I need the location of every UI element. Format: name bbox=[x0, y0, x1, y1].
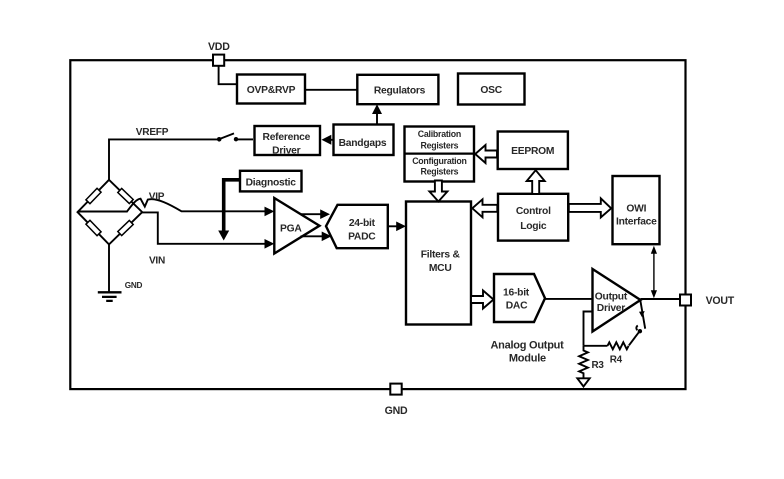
block Control Logic bbox=[498, 194, 568, 241]
double arrow OWI Interface to output line bbox=[651, 246, 657, 299]
label GND (bridge) bbox=[125, 281, 143, 290]
label VDD bbox=[208, 41, 230, 53]
svg-text:Output: Output bbox=[595, 292, 628, 303]
svg-text:VIP: VIP bbox=[149, 191, 165, 202]
svg-text:GND: GND bbox=[385, 405, 408, 417]
arrow Bandgaps to Regulators bbox=[372, 104, 382, 124]
svg-text:GND: GND bbox=[125, 281, 143, 290]
wire bridge bottom to ground bbox=[108, 244, 110, 292]
block Regulators bbox=[357, 75, 438, 104]
ground (bridge) bbox=[98, 292, 122, 301]
bridge resistor top-right bbox=[118, 188, 133, 203]
wire VIP with crossover squiggle bbox=[78, 199, 267, 212]
arrow Bandgaps to Reference Driver bbox=[322, 135, 334, 145]
svg-text:PGA: PGA bbox=[280, 224, 302, 235]
svg-text:Reference: Reference bbox=[263, 132, 311, 143]
block Filters & MCU bbox=[406, 202, 471, 325]
wire VIN bbox=[142, 212, 266, 243]
hollow arrow EEPROM to Registers bbox=[475, 145, 497, 163]
wire VDD to OVP&RVP bbox=[219, 66, 237, 85]
label R4 bbox=[610, 354, 623, 365]
block Diagnostic bbox=[240, 171, 302, 192]
svg-text:Diagnostic: Diagnostic bbox=[246, 178, 297, 189]
chip boundary bbox=[70, 60, 685, 389]
wire feedback horizontal to R4 bbox=[584, 345, 608, 347]
switch on VREFP line bbox=[217, 133, 253, 141]
svg-text:Analog Output: Analog Output bbox=[490, 339, 564, 351]
bridge resistor bottom-right bbox=[118, 220, 133, 235]
svg-text:Configuration: Configuration bbox=[412, 156, 466, 166]
pin VOUT bbox=[680, 295, 691, 306]
block Calibration/Configuration Registers bbox=[405, 127, 475, 182]
label Analog Output Module bbox=[490, 339, 564, 364]
svg-text:VIN: VIN bbox=[149, 256, 165, 267]
op-amp PGA bbox=[274, 198, 319, 254]
block OVP&RVP bbox=[237, 75, 305, 104]
svg-text:Control: Control bbox=[516, 206, 551, 217]
pin GND bbox=[390, 384, 401, 395]
arrow VIP to PGA bbox=[265, 207, 275, 217]
svg-text:DAC: DAC bbox=[506, 301, 528, 312]
arrow Diagnostic to input path bbox=[218, 180, 239, 241]
svg-text:EEPROM: EEPROM bbox=[511, 146, 554, 157]
svg-text:16-bit: 16-bit bbox=[503, 288, 530, 299]
hollow arrow Control Logic to Filters & MCU bbox=[472, 199, 497, 217]
arrow PADC to Filters & MCU bbox=[389, 222, 407, 232]
svg-text:VDD: VDD bbox=[208, 41, 230, 53]
switch at output bbox=[629, 301, 645, 346]
bridge sensor edges bbox=[78, 180, 143, 245]
ground (below R3) bbox=[577, 378, 589, 386]
svg-text:PADC: PADC bbox=[348, 232, 376, 243]
svg-text:Registers: Registers bbox=[420, 167, 458, 177]
hollow arrow Control Logic to OWI Interface bbox=[569, 198, 611, 217]
label VREFP bbox=[136, 127, 169, 138]
block Bandgaps bbox=[334, 125, 394, 156]
arrow VIN to PGA bbox=[265, 239, 275, 249]
svg-text:Logic: Logic bbox=[520, 221, 547, 232]
svg-text:Interface: Interface bbox=[616, 217, 657, 228]
hollow arrow Filters & MCU to 16-bit DAC bbox=[471, 291, 494, 309]
op-amp Output Driver bbox=[593, 269, 641, 332]
label VIN bbox=[149, 256, 165, 267]
resistor R3 bbox=[579, 346, 588, 378]
label VIP bbox=[149, 191, 165, 202]
wire OVP&RVP to Regulators bbox=[305, 89, 357, 91]
svg-text:OWI: OWI bbox=[626, 204, 646, 215]
wire DAC to Output Driver bbox=[545, 298, 593, 300]
svg-text:R3: R3 bbox=[592, 360, 605, 371]
svg-text:Driver: Driver bbox=[272, 145, 301, 156]
svg-text:Regulators: Regulators bbox=[374, 86, 426, 97]
arrow PGA to PADC lower bbox=[301, 232, 332, 242]
label R3 bbox=[592, 360, 605, 371]
svg-text:R4: R4 bbox=[610, 354, 623, 365]
block OWI Interface bbox=[613, 176, 660, 244]
wire VREFP from bridge to switch bbox=[109, 139, 217, 179]
hollow arrow Control Logic to EEPROM bbox=[527, 170, 545, 194]
svg-text:Module: Module bbox=[509, 353, 546, 365]
block 24-bit PADC bbox=[326, 205, 388, 248]
wire feedback from Output Driver input bbox=[584, 312, 593, 346]
wire output to VOUT bbox=[641, 298, 681, 300]
svg-text:MCU: MCU bbox=[429, 263, 452, 274]
svg-text:Calibration: Calibration bbox=[418, 129, 461, 139]
label VOUT bbox=[706, 295, 735, 307]
block OSC bbox=[458, 74, 525, 105]
svg-text:VREFP: VREFP bbox=[136, 127, 169, 138]
bridge resistor bottom-left bbox=[86, 220, 101, 235]
hollow arrow Registers to Filters & MCU bbox=[429, 181, 447, 202]
pin VDD bbox=[213, 55, 224, 66]
resistor R4 bbox=[608, 342, 629, 349]
bridge resistor top-left bbox=[86, 188, 101, 203]
svg-text:Bandgaps: Bandgaps bbox=[339, 138, 387, 149]
label GND bbox=[385, 405, 408, 417]
svg-text:VOUT: VOUT bbox=[706, 295, 735, 307]
svg-text:OVP&RVP: OVP&RVP bbox=[247, 85, 296, 96]
block EEPROM bbox=[498, 132, 568, 170]
svg-text:24-bit: 24-bit bbox=[349, 218, 376, 229]
block 16-bit DAC bbox=[494, 274, 545, 322]
svg-text:Registers: Registers bbox=[420, 141, 458, 151]
svg-text:Filters &: Filters & bbox=[421, 250, 461, 261]
svg-text:Driver: Driver bbox=[597, 303, 626, 314]
arrow PGA to PADC upper bbox=[301, 209, 331, 219]
block Reference Driver bbox=[255, 126, 321, 156]
svg-text:OSC: OSC bbox=[480, 85, 502, 96]
